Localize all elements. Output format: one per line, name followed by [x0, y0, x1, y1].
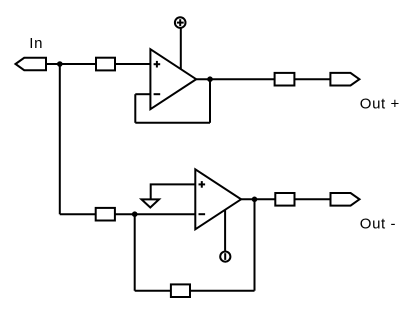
- svg-text:Out -: Out -: [360, 216, 396, 233]
- wire feedback bottom right (U2): [190, 290, 255, 292]
- wire U2 output: [241, 198, 275, 200]
- wire In to R1: [46, 63, 96, 65]
- input connector In: [16, 58, 47, 70]
- wire R1 to U1 + input: [115, 63, 150, 65]
- output connector Out-: [331, 193, 360, 206]
- wire feedback left vertical (U2): [134, 214, 136, 291]
- current source I1: [220, 252, 230, 262]
- op-amp U2: [195, 169, 241, 229]
- junction dot U2 output node: [252, 197, 258, 203]
- junction dot U1 output node: [207, 76, 213, 82]
- wire U1 output: [196, 78, 274, 80]
- junction dot input node: [57, 61, 63, 67]
- power supply V+: [175, 17, 186, 28]
- wire feedback loop bottom (U1): [135, 122, 210, 124]
- wire feedback loop right (U1): [209, 79, 211, 123]
- wire lower branch to R3: [60, 213, 96, 215]
- junction dot U2 - input node: [132, 211, 138, 217]
- svg-text:In: In: [29, 35, 43, 52]
- resistor R5: [275, 193, 294, 206]
- wire V+ to U1: [180, 28, 182, 69]
- wire U1 - input: [135, 93, 150, 95]
- resistor R2: [275, 73, 295, 86]
- resistor R1: [96, 58, 115, 71]
- wire U2 to current source: [224, 210, 226, 251]
- svg-text:Out +: Out +: [360, 95, 400, 112]
- wire R3 to U2 - input: [115, 213, 195, 215]
- output connector Out+: [330, 73, 359, 86]
- wire R2 to Out+ connector: [294, 78, 330, 80]
- wire input node down to lower branch: [59, 64, 61, 214]
- resistor R4 feedback: [171, 284, 190, 297]
- wire U2 + input: [151, 184, 196, 199]
- op-amp U1: [150, 49, 196, 109]
- wire R5 to Out- connector: [295, 198, 331, 200]
- ground: [142, 199, 160, 207]
- wire feedback bottom left (U2): [135, 290, 171, 292]
- wire feedback right vertical (U2): [254, 199, 256, 290]
- wire feedback loop left (U1): [134, 94, 136, 123]
- resistor R3: [96, 208, 115, 221]
